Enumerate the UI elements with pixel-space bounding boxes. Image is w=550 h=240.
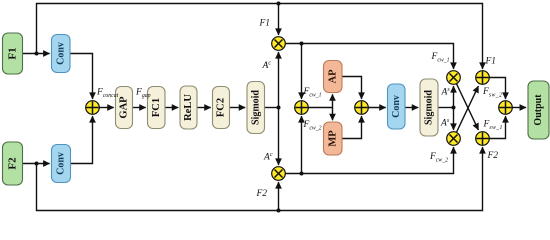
wire: mul1 output along top to mulTR	[285, 44, 453, 69]
svg-text:ReLU: ReLU	[183, 94, 194, 121]
wire: F2 input to Conv2	[23, 163, 50, 165]
svg-text:F2: F2	[7, 157, 19, 170]
label Fcw2 right	[429, 152, 448, 164]
svg-text:Fcw_2: Fcw_2	[429, 152, 448, 164]
node addTR	[476, 71, 490, 85]
svg-text:Ac: Ac	[262, 61, 272, 72]
svg-text:F1: F1	[259, 19, 271, 29]
wire: FC2 to Sigmoid1	[230, 107, 246, 109]
wire: mul2 output along bottom to mulBR	[285, 147, 453, 173]
node add1	[295, 101, 309, 115]
wire: GAP to FC1	[133, 107, 146, 109]
svg-text:Output: Output	[533, 94, 544, 126]
box Sigmoid1	[247, 82, 265, 134]
box F2 input	[3, 142, 23, 185]
label Fconcat	[96, 88, 119, 100]
box Conv1	[52, 35, 71, 73]
node add final	[499, 101, 513, 115]
svg-text:FC2: FC2	[216, 98, 227, 117]
wire: attention As down into mulBR	[453, 108, 455, 130]
wire: F1 skip to top border and down to addTR	[37, 4, 483, 69]
wire: F1 input to Conv1	[23, 53, 50, 55]
box GAP	[116, 87, 133, 129]
node mulTR	[447, 71, 461, 85]
svg-text:FC1: FC1	[151, 98, 162, 117]
box Sigmoid2	[420, 79, 438, 136]
box F1 input	[3, 33, 23, 74]
wire: ReLU to FC2	[197, 107, 211, 109]
node add concat	[86, 101, 100, 115]
wire: top border branch down into mul1	[278, 4, 280, 35]
box MP	[324, 122, 343, 155]
box FC1	[148, 87, 166, 129]
svg-text:Ac: Ac	[263, 152, 273, 163]
wire: Fcw1 branch down into add1	[301, 44, 303, 99]
wire: mulTR diagonal down to addBR	[456, 84, 478, 130]
wire: F2 skip to bottom border and up to addBR	[37, 147, 483, 210]
svg-text:GAP: GAP	[119, 96, 130, 119]
label Fcw2 mid	[303, 120, 322, 132]
label As top right	[441, 87, 451, 98]
box AP	[324, 61, 343, 93]
wire: add1 output split to AP and MP	[308, 94, 332, 120]
svg-text:Conv: Conv	[391, 95, 402, 118]
svg-text:Fsw_1: Fsw_1	[483, 120, 503, 132]
box ReLU	[180, 86, 197, 129]
svg-text:Sigmoid: Sigmoid	[424, 90, 435, 125]
svg-text:As: As	[441, 87, 451, 98]
node add2	[355, 101, 369, 115]
node mul2 bottom center	[272, 167, 286, 181]
svg-text:F1: F1	[7, 47, 19, 59]
box Conv3	[388, 84, 406, 129]
wire: Sigmoid1 output to junction	[265, 107, 279, 109]
node junction on F1 wire	[35, 52, 39, 56]
svg-text:Conv: Conv	[56, 152, 67, 175]
wire: Conv2 output up into concat add	[71, 116, 93, 163]
wire: concat add to GAP	[99, 107, 113, 109]
wire: attention Ac up into mul1	[278, 52, 280, 107]
box Output	[528, 81, 549, 139]
label F1 right	[485, 57, 497, 67]
svg-text:AP: AP	[327, 69, 338, 84]
wire: addBR output up into final add	[489, 116, 505, 138]
label As bottom right	[440, 118, 450, 129]
label F2 bottom center	[256, 189, 268, 199]
label Fgap	[135, 88, 151, 100]
node junction Fcw2	[300, 172, 304, 176]
svg-text:Fcw_1: Fcw_1	[303, 87, 322, 99]
box Conv2	[52, 145, 71, 183]
wire: attention As up into mulTR	[453, 86, 455, 107]
svg-text:Fcw_2: Fcw_2	[303, 120, 322, 132]
box FC2	[213, 87, 230, 129]
svg-text:MP: MP	[327, 130, 338, 147]
wire: attention Ac down into mul2	[278, 108, 280, 165]
wire: Sigmoid2 output to junction	[438, 107, 454, 109]
label Fsw2	[482, 87, 502, 99]
node mulBR	[447, 132, 461, 146]
label F1 top center	[259, 19, 271, 29]
svg-text:F2: F2	[487, 151, 499, 161]
node junction top border	[277, 2, 281, 6]
svg-text:Fconcat: Fconcat	[96, 88, 119, 100]
wire: MP output up into add2	[342, 116, 362, 138]
wire: Conv3 to Sigmoid2	[405, 107, 418, 109]
wire: Conv1 output down into concat add	[70, 54, 93, 99]
svg-text:Fcw_1: Fcw_1	[431, 52, 450, 64]
node addBR	[476, 132, 490, 146]
wire: add2 to Conv3	[368, 107, 385, 109]
node junction after Sigmoid1	[277, 106, 281, 110]
wire: final add to Output	[512, 107, 526, 109]
svg-text:F2: F2	[256, 189, 268, 199]
label Fcw1 right	[431, 52, 450, 64]
wire: mulBR diagonal up to addTR	[456, 86, 478, 132]
svg-text:As: As	[440, 118, 450, 129]
label Ac top center	[262, 61, 272, 72]
wire: addTR output down into final add	[489, 78, 505, 99]
svg-text:Conv: Conv	[55, 42, 66, 65]
svg-text:Fsw_2: Fsw_2	[482, 87, 502, 99]
label F2 right	[487, 151, 499, 161]
label Ac bottom center	[263, 152, 273, 163]
wire: AP output down into add2	[342, 77, 362, 99]
label Fcw1 mid	[303, 87, 322, 99]
node junction after Sigmoid2	[452, 106, 456, 110]
node junction on F2 wire	[35, 162, 39, 166]
wire: FC1 to ReLU	[165, 107, 178, 109]
wire: bottom border branch up into mul2	[278, 182, 280, 210]
node mul1 top center	[272, 37, 286, 51]
label Fsw1	[483, 120, 503, 132]
svg-text:Sigmoid: Sigmoid	[250, 90, 261, 125]
svg-text:F1: F1	[485, 57, 497, 67]
node junction bottom border	[277, 209, 281, 213]
node junction Fcw1	[300, 42, 304, 46]
wire: Fcw2 branch up into add1	[301, 116, 303, 173]
